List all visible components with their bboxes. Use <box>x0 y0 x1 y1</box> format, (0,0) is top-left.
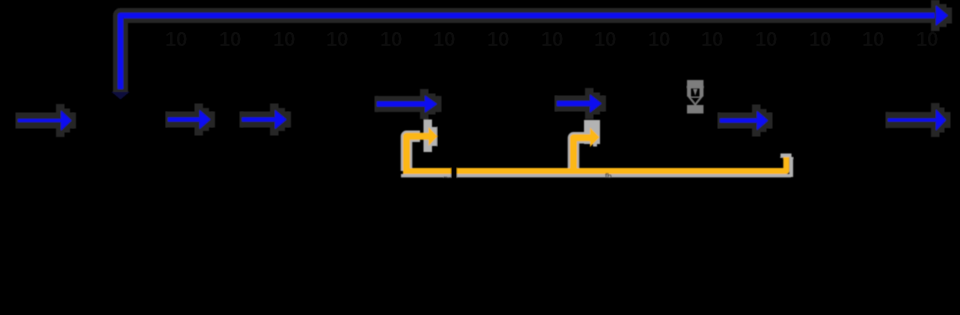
wire: feedback riser A (orange) <box>407 136 430 174</box>
svg-text:10: 10 <box>755 29 777 51</box>
top line arrowhead casing (stepped) <box>931 0 952 31</box>
svg-text:Mod: Mod <box>484 114 509 129</box>
watermark corner <box>0 0 15 15</box>
block F (output stage) <box>770 87 887 158</box>
svg-text:10: 10 <box>219 29 241 51</box>
svg-text:10: 10 <box>648 29 670 51</box>
feedback arrow B head casing (block) <box>584 120 600 147</box>
feedback riser B casing <box>574 138 587 171</box>
arrow 4 casing <box>375 89 442 119</box>
svg-text:Filter: Filter <box>318 115 348 130</box>
arrow 7 output casing <box>886 103 951 137</box>
svg-text:fs: fs <box>160 131 169 145</box>
arrow 5 casing <box>555 88 607 119</box>
svg-text:out: out <box>890 133 907 147</box>
svg-text:fb: fb <box>605 172 612 181</box>
feedback arrow A head casing (stepped) <box>424 120 438 153</box>
arrow 3 (blue) <box>242 110 287 129</box>
arrow 7 output (blue) <box>888 110 946 131</box>
svg-text:+: + <box>223 112 231 127</box>
block E (quantizer) <box>603 87 719 158</box>
bitstream digits row <box>165 29 938 51</box>
wire: feedback bus (orange) <box>404 157 787 171</box>
svg-text:10: 10 <box>916 29 938 51</box>
feedback right stub gray cap <box>781 154 792 158</box>
feedback riser A casing <box>407 136 421 171</box>
feedback right stub casing (right side) <box>789 157 793 177</box>
svg-text:10: 10 <box>165 29 187 51</box>
top line arrowhead (right, at right edge) <box>936 6 948 26</box>
svg-text:10: 10 <box>862 29 884 51</box>
svg-text:10: 10 <box>273 29 295 51</box>
arrow 6 (blue) <box>720 111 768 130</box>
arrow 5 (blue) <box>557 95 602 113</box>
feedback arrow B head <box>590 128 600 148</box>
arrow 3 casing <box>240 104 292 136</box>
svg-text:Quant: Quant <box>643 114 679 129</box>
svg-text:10: 10 <box>487 29 509 51</box>
svg-text:10: 10 <box>541 29 563 51</box>
svg-text:10: 10 <box>701 29 723 51</box>
svg-text:10: 10 <box>809 29 831 51</box>
svg-text:10: 10 <box>380 29 402 51</box>
feedback bus gray underline casing <box>401 174 791 177</box>
svg-text:fb: fb <box>443 175 451 185</box>
arrow 4 (blue) <box>377 96 437 113</box>
arrow 6 casing <box>718 105 773 137</box>
svg-text:10: 10 <box>326 29 348 51</box>
block A (input stage) <box>73 92 166 155</box>
black gap over bus (overlapping label) <box>451 161 457 181</box>
block D (modulator) <box>438 87 556 158</box>
dim arrowhead into block A <box>112 92 130 100</box>
wire: top digital line casing <box>121 16 935 93</box>
arrow 1 input (blue) <box>18 111 72 131</box>
svg-text:10: 10 <box>594 29 616 51</box>
svg-text:DAC: DAC <box>814 114 841 129</box>
wire: top digital line (blue) <box>121 16 935 90</box>
block B (sum) <box>212 97 242 143</box>
feedback arrow A head <box>429 127 438 146</box>
arrow 2 (blue) <box>168 110 211 129</box>
wire: feedback riser B (orange) <box>574 138 591 174</box>
svg-text:10: 10 <box>433 29 455 51</box>
svg-text:ADC: ADC <box>105 116 132 131</box>
block C (filter) <box>288 91 377 155</box>
arrow 2 casing <box>166 104 216 136</box>
gray clock-tap icon above block E <box>687 80 704 114</box>
arrow 1 input casing <box>16 104 77 137</box>
